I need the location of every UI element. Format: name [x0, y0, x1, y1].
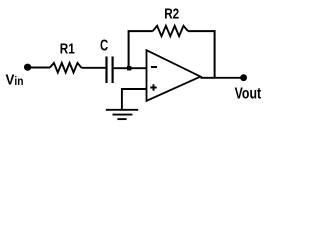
svg-text:C: C: [100, 38, 109, 55]
svg-text:R2: R2: [164, 7, 179, 23]
svg-text:Vout: Vout: [235, 86, 262, 103]
svg-text:R1: R1: [60, 41, 75, 57]
